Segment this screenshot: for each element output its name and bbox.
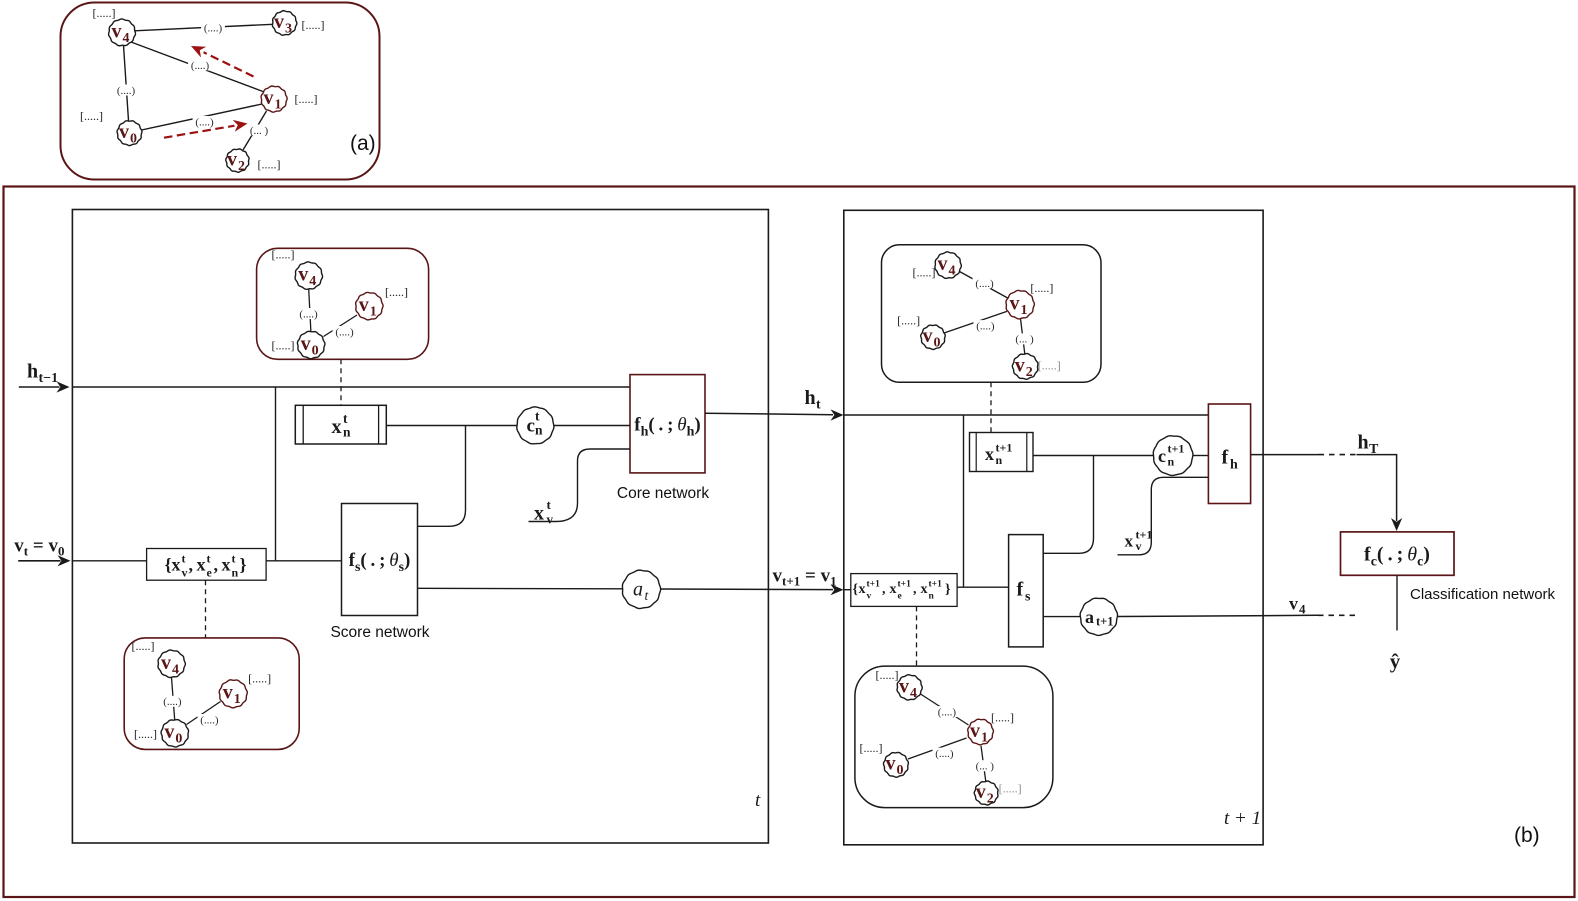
svg-text:n: n [1168,455,1175,469]
wire h_T from fh+1 [1251,454,1319,456]
wire a_t+1 output dashed tail [1318,614,1356,616]
svg-text:0: 0 [934,336,941,351]
wire edge v0-v1 (t+1 upper) [944,311,1007,333]
svg-text:(....): (....) [335,326,354,338]
label xv^t+1 [1125,528,1153,554]
node v4 (t lower) [158,650,185,678]
svg-text:x: x [197,555,206,575]
svg-text:4: 4 [309,274,316,289]
svg-text:(....): (....) [195,116,214,128]
node v1 (t upper) [356,292,383,320]
svg-text:t: t [755,790,761,811]
svg-text:f: f [1017,579,1024,601]
wire vt+1 into feature box (t+1) [844,589,851,591]
wire edge v4-v0 (t lower) [161,677,185,719]
node v1 (t+1 upper) [1006,290,1034,319]
wire branch h_t to score input (t+1) [963,415,965,587]
node v1 (t+1 lower) [968,719,994,745]
svg-text:t+1: t+1 [898,580,912,590]
svg-text:t: t [232,552,236,566]
svg-text:x: x [859,582,866,597]
svg-text:v: v [112,21,122,43]
label h_T [1358,432,1380,458]
svg-text:(... ): (... ) [250,125,269,137]
wire edge v4-v0 [114,46,138,121]
label h_t-1 [27,361,58,387]
svg-text:t+1: t+1 [1168,442,1185,456]
svg-text:0: 0 [897,763,904,778]
svg-text:[.....]: [.....] [860,741,883,755]
svg-text:v: v [301,333,311,355]
svg-text:v: v [264,87,274,109]
svg-text:(....): (....) [938,706,957,718]
svg-text:v: v [1015,354,1025,376]
svg-text:[.....]: [.....] [258,158,281,172]
box fh core network (t) [630,375,705,473]
svg-text:t+1: t+1 [867,580,881,590]
svg-text:v: v [227,149,237,171]
svg-text:0: 0 [312,343,319,358]
svg-text:[.....]: [.....] [897,314,920,328]
svg-text:s: s [1025,590,1031,605]
svg-text:,: , [882,582,886,597]
svg-text:a: a [633,579,643,601]
wire cn+1 to fh+1 [1193,455,1209,457]
svg-text:v: v [547,512,554,527]
svg-text:t + 1: t + 1 [1224,808,1261,829]
wire xv^t+1 to fh+1 [1118,477,1209,555]
svg-text:1: 1 [370,305,377,320]
svg-text:1: 1 [275,98,282,113]
svg-text:f: f [1222,447,1229,469]
svg-text:v: v [970,720,980,742]
svg-text:(....): (....) [975,278,994,290]
svg-text:v: v [182,566,188,580]
wire edge v4-v1 [131,42,266,93]
wire fc output [1396,575,1398,630]
wire edge v1-v2 (t+1 upper) [1013,319,1037,355]
node cn^t+1 [1153,436,1193,476]
svg-text:[.....]: [.....] [272,248,295,262]
wire feature box to fs [266,560,341,562]
wire edge v0-v1 (t+1 lower) [908,738,967,760]
svg-text:c: c [1158,446,1166,466]
box feature set {xv,xe,xn} (t+1) [851,574,957,607]
svg-text:(b): (b) [1514,824,1540,847]
wire feature box to fs (t+1) [957,586,1009,588]
svg-text:ŷ: ŷ [1390,649,1401,673]
wire edge v4-v0 (t upper) [297,289,321,332]
svg-text:x: x [985,444,994,464]
svg-text:t: t [816,398,821,413]
svg-text:(....): (....) [204,22,223,34]
svg-text:v: v [899,675,909,697]
node v4 (t+1 upper) [935,252,961,279]
node v4 (t upper) [295,262,323,289]
svg-text:[.....]: [.....] [93,6,116,20]
svg-text:t−1: t−1 [39,371,59,386]
svg-text:[.....]: [.....] [385,285,408,299]
box time step t+1 [844,210,1263,845]
subgraph frame (t+1 lower) [855,666,1053,808]
wire h_t (fh t to t+1 box) arrow [705,409,844,420]
label h_t [805,387,822,413]
node a_t [622,570,660,608]
svg-text:(....): (....) [976,320,995,332]
dashed connector subgraph to xn (t+1) [990,382,992,432]
svg-text:v: v [274,11,284,33]
svg-text:[.....]: [.....] [272,339,295,353]
label v_t+1 = v_1 [773,566,837,589]
dashed connector feature box to subgraph (t+1 lower) [916,606,918,666]
wire score output up to core input [418,426,466,527]
svg-text:v: v [223,682,233,704]
svg-text:,: , [214,555,219,575]
svg-text:x: x [890,582,897,597]
wire edge v1-v2 [243,111,271,150]
svg-text:v: v [1136,539,1142,553]
node cn^t [517,407,554,444]
label xv^t [534,497,554,527]
red dashed arrow v0 to v1 [164,120,248,138]
svg-text:vt = v0: vt = v0 [14,536,64,559]
wire edge v0-v1 [142,104,263,130]
svg-text:(....): (....) [117,85,136,97]
svg-text:h: h [27,361,38,383]
svg-text:v: v [161,652,171,674]
svg-text:T: T [1369,442,1379,457]
svg-text:Classification network: Classification network [1410,586,1556,603]
dashed connector subgraph to xn (t) [340,359,342,405]
node v2 (a) [226,149,249,175]
node v1 (a) [261,86,287,112]
wire h_t-1 input arrow [19,381,70,392]
svg-text:1: 1 [981,730,988,745]
svg-text:(....): (....) [191,60,210,72]
svg-text:[.....]: [.....] [302,18,325,32]
svg-text:x: x [222,555,231,575]
wire score output up to core line (t+1) [1043,456,1093,554]
svg-text:[.....]: [.....] [876,668,899,682]
svg-text:v: v [938,253,948,275]
svg-text:4: 4 [123,31,130,46]
svg-text:e: e [898,592,902,602]
svg-text:(a): (a) [350,132,376,155]
svg-text:v: v [886,753,896,775]
svg-text:[.....]: [.....] [132,639,155,653]
svg-text:h: h [1230,458,1238,473]
svg-text:(....): (....) [200,714,219,726]
svg-text:v: v [1289,594,1298,614]
wire edge v4-v1 (t+1 upper) [960,272,1010,300]
svg-text:n: n [535,423,543,438]
svg-text:4: 4 [1299,602,1306,617]
svg-text:}: } [945,582,951,597]
svg-text:t+1: t+1 [929,580,943,590]
node a_t+1 [1080,598,1117,635]
svg-text:v: v [119,121,129,143]
wire xn to cn [386,425,517,427]
svg-text:v: v [867,592,872,602]
wire cn to fh [554,425,630,427]
box fh core network (t+1) [1208,404,1250,504]
wire branch h to score input [275,387,277,561]
svg-text:2: 2 [238,159,245,174]
node v4 (a) [109,19,136,46]
node v0 (t lower) [161,720,189,747]
svg-text:n: n [343,425,351,440]
node v0 (t+1 lower) [883,752,908,778]
node v0 (a) [117,121,142,147]
node v0 (t upper) [297,331,325,358]
svg-text:x: x [332,416,342,438]
wire edge v4-v1 (t+1 lower) [921,694,969,725]
svg-text:(... ): (... ) [1015,334,1034,346]
svg-text:,: , [913,582,917,597]
svg-text:[.....]: [.....] [134,727,157,741]
wire v_t input arrow [18,555,70,566]
svg-text:[.....]: [.....] [991,711,1014,725]
svg-text:v: v [359,294,369,316]
svg-text:t+1: t+1 [1096,615,1114,629]
wire edge v4-v3 [135,22,273,34]
svg-text:2: 2 [1026,365,1033,380]
svg-text:a: a [1085,607,1094,627]
svg-text:[.....]: [.....] [913,266,936,280]
wire a_t+1 output [1117,615,1318,616]
label v_t = v_0 [14,536,64,559]
panel (a) frame [61,3,380,180]
wire xn+1 to cn+1 [1033,455,1153,457]
subgraph frame (t upper) [257,248,429,359]
wire edge v0-v1 (t upper) [324,315,358,338]
wire edge v1-v2 (t+1 lower) [973,746,997,782]
svg-text:n: n [232,566,239,580]
svg-text:n: n [929,592,935,602]
svg-text:4: 4 [172,662,179,677]
svg-text:}: } [240,555,247,575]
wire h_t horizontal (t+1 box) [844,414,1209,416]
subgraph frame (t+1 upper) [882,245,1102,382]
wire vt to feature box [72,560,146,562]
node v0 (t+1 upper) [921,325,946,351]
svg-text:0: 0 [175,732,182,747]
svg-text:t: t [182,552,186,566]
svg-text:n: n [996,453,1003,467]
svg-text:[.....]: [.....] [295,92,318,106]
node v2 (t+1 lower) [974,781,998,807]
svg-text:v: v [298,264,308,286]
svg-text:x: x [921,582,928,597]
svg-text:t: t [547,497,552,512]
svg-text:t: t [207,552,211,566]
box xn^t+1 [970,433,1034,472]
box fs score network (t) [342,504,418,616]
svg-text:(....): (....) [299,308,318,320]
wire h_T corner down to fc arrow [1357,455,1403,531]
wire fs+1 to a_t+1 [1043,616,1080,618]
svg-text:Score network: Score network [330,624,429,641]
svg-text:t: t [535,409,540,424]
svg-text:v: v [976,781,986,803]
svg-text:vt+1 = v1: vt+1 = v1 [773,566,837,589]
svg-text:1: 1 [234,692,241,707]
svg-text:2: 2 [987,792,994,807]
svg-text:[.....]: [.....] [248,672,271,686]
svg-text:h: h [805,387,816,409]
wire xv^t to fh [529,449,631,522]
svg-text:v: v [923,325,933,347]
svg-text:[.....]: [.....] [80,109,103,123]
wire a_t to t+1 box arrow [660,584,843,595]
svg-text:v: v [1010,293,1020,315]
label v_4 output [1289,594,1306,617]
svg-text:c: c [527,416,535,437]
red dashed arrow v1 to v4 [191,46,254,77]
panel (b) frame [4,187,1575,898]
svg-text:4: 4 [949,264,956,279]
wire fs to a_t [418,587,623,590]
svg-text:h: h [1358,432,1369,454]
box xn^t [295,405,386,444]
svg-text:[.....]: [.....] [1030,281,1053,295]
wire h_T dashed segment [1319,454,1357,456]
svg-text:[.....]: [.....] [999,782,1022,796]
svg-text:x: x [1125,532,1134,551]
svg-text:0: 0 [130,132,137,147]
dashed connector feature box to subgraph (t lower) [205,580,207,638]
svg-text:{: { [853,582,859,597]
svg-text:4: 4 [910,686,917,701]
node v2 (t+1 upper) [1012,354,1038,380]
wire h_t-1 horizontal (t box) [72,386,630,388]
node v4 (t+1 lower) [897,675,922,701]
svg-text:1: 1 [1021,303,1028,318]
svg-text:(....): (....) [935,748,954,760]
svg-text:v: v [164,721,174,743]
svg-text:3: 3 [285,22,292,37]
node v1 (t lower) [219,680,247,708]
svg-text:Core network: Core network [617,485,709,502]
wire edge v0-v1 (t lower) [187,702,222,727]
box time step t [72,210,768,844]
svg-text:e: e [207,566,213,580]
svg-text:[.....]: [.....] [1038,358,1061,372]
box feature set {xv,xe,xn} (t) [147,549,267,581]
node v3 (a) [272,11,296,37]
svg-text:,: , [189,555,194,575]
subgraph frame (t lower) [124,638,299,750]
box fc classification network [1341,532,1455,575]
svg-text:x: x [172,555,181,575]
svg-text:(....): (....) [163,696,182,708]
box fs score network (t+1) [1009,535,1044,647]
svg-text:(... ): (... ) [976,761,995,773]
